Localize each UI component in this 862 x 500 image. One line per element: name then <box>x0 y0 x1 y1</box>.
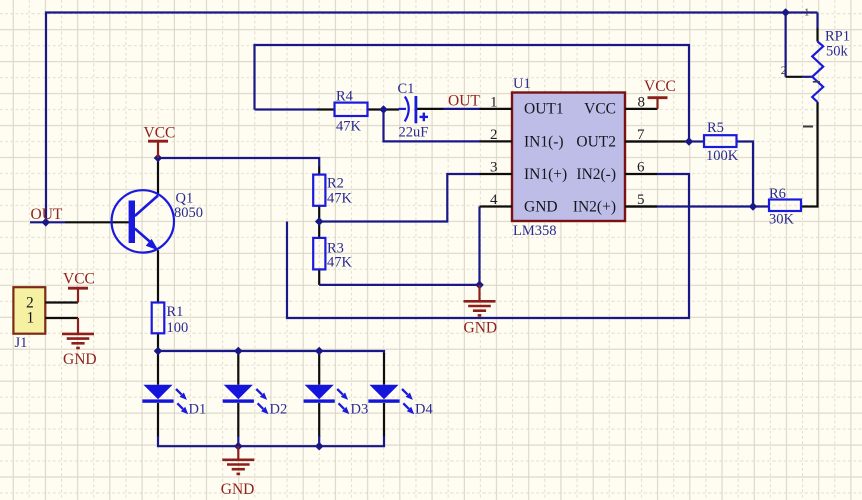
op-amp U1 LM358 <box>512 76 625 239</box>
wire D3 anode <box>318 351 320 385</box>
wire D3 cathode <box>318 403 320 437</box>
svg-text:50k: 50k <box>826 44 849 60</box>
svg-text:OUT1: OUT1 <box>524 100 564 117</box>
wire feedback loop R4 to OUT2 node <box>255 45 690 142</box>
wire D2/D3 cathode stubs to rail <box>238 436 319 446</box>
wire VCC node to R2 top <box>158 158 319 175</box>
svg-text:VCC: VCC <box>584 100 616 117</box>
wire LED cathode rail <box>158 436 384 446</box>
svg-text:100: 100 <box>167 320 189 336</box>
wire D1 cathode <box>157 403 159 437</box>
pin 2 stub <box>480 127 513 143</box>
svg-text:30K: 30K <box>769 211 795 227</box>
ground GND at pin 4 net <box>464 285 498 336</box>
node junction pin7 / R5 / feedback <box>685 137 694 146</box>
resistor R1 100 <box>152 303 189 336</box>
wire R1 bottom to LED rail <box>157 333 159 351</box>
resistor R6 30K <box>769 186 801 227</box>
svg-text:J1: J1 <box>15 335 28 351</box>
pin J1.2 stub <box>45 301 78 303</box>
svg-text:4: 4 <box>490 192 498 208</box>
svg-text:R5: R5 <box>707 120 724 136</box>
wire D4 cathode <box>383 403 385 437</box>
node junction OUT net <box>42 218 51 227</box>
node junction R1 / D1 <box>154 347 163 356</box>
LED D1 <box>142 385 206 418</box>
resistor R5 100K <box>704 120 739 164</box>
wire IN1(+) pin3 from R2R3 node <box>319 174 479 222</box>
resistor R3 47K <box>313 238 352 270</box>
svg-text:OUT2: OUT2 <box>576 133 616 150</box>
wire Q1 emitter down through R1 top <box>157 250 159 302</box>
svg-text:8050: 8050 <box>174 205 203 221</box>
svg-text:5: 5 <box>637 192 645 208</box>
svg-text:VCC: VCC <box>144 124 176 141</box>
LED D2 <box>223 385 288 418</box>
svg-text:VCC: VCC <box>63 271 95 288</box>
potentiometer RP1 50k <box>781 7 850 127</box>
ground GND at LED cathode rail <box>221 446 255 498</box>
wire LED anode rail <box>158 351 384 354</box>
node junction rail / D3 <box>315 347 324 356</box>
resistor R2 47K <box>313 175 352 207</box>
power VCC at pin 8 <box>644 78 676 109</box>
ground GND at J1 <box>62 318 97 368</box>
svg-text:R2: R2 <box>327 176 344 192</box>
svg-text:IN1(+): IN1(+) <box>524 166 567 183</box>
wire R4 junction down to IN1(-) pin 2 <box>384 110 480 142</box>
svg-text:R4: R4 <box>336 89 354 105</box>
svg-text:1: 1 <box>490 94 498 110</box>
svg-text:2: 2 <box>490 127 498 143</box>
svg-text:7: 7 <box>637 127 645 143</box>
wire R6 right to RP1 bottom <box>801 102 818 207</box>
wire R3 bottom to GND node and pin4 <box>319 207 479 285</box>
svg-text:22uF: 22uF <box>399 124 429 140</box>
pin 1 stub <box>480 94 513 110</box>
svg-text:R6: R6 <box>769 186 786 202</box>
power VCC at Q1 collector <box>144 124 176 158</box>
wire top rail from OUT net up and across to RP1 <box>46 13 818 223</box>
svg-text:D4: D4 <box>415 402 433 418</box>
svg-text:2: 2 <box>781 65 787 77</box>
node junction rail / D2 <box>234 347 243 356</box>
resistor R4 47K <box>335 89 368 135</box>
svg-text:100K: 100K <box>706 148 739 164</box>
svg-text:IN1(-): IN1(-) <box>524 133 564 150</box>
svg-text:R1: R1 <box>167 304 184 320</box>
connector J1 <box>13 287 45 351</box>
svg-text:1: 1 <box>804 7 810 19</box>
wire R4 right to C1 <box>368 108 400 110</box>
svg-text:8: 8 <box>638 94 646 110</box>
wire R5 left lead <box>689 140 704 142</box>
wire D4 anode <box>383 353 385 385</box>
svg-text:OUT: OUT <box>31 206 63 223</box>
svg-text:D1: D1 <box>189 402 207 418</box>
wire OUT net to Q1 base <box>30 221 129 223</box>
node junction top rail / RP1 wiper <box>781 8 790 17</box>
svg-text:RP1: RP1 <box>825 29 850 45</box>
wire RP1 top lead <box>816 13 818 42</box>
LED D4 <box>368 385 433 418</box>
svg-text:GND: GND <box>524 199 558 216</box>
wire D2 cathode <box>237 403 239 437</box>
wire D1 anode <box>157 351 159 385</box>
pin 8 stub <box>625 94 658 110</box>
node junction cathode rail / D3 <box>315 442 324 451</box>
wire R3 bottom lead <box>318 269 320 285</box>
wire into R4 left <box>255 108 335 110</box>
svg-text:IN2(+): IN2(+) <box>573 199 616 216</box>
pin 4 stub <box>480 192 513 208</box>
node junction pin4 / GND <box>475 281 484 290</box>
node junction R5 / pin5 / R6 <box>749 202 758 211</box>
wire R2 bottom lead <box>318 206 320 222</box>
svg-text:47K: 47K <box>336 119 362 135</box>
svg-text:47K: 47K <box>327 191 353 207</box>
wire C1 to pin 1 OUT1 <box>417 108 480 110</box>
power VCC at J1 <box>63 271 95 303</box>
pin 7 stub <box>625 127 657 143</box>
svg-text:GND: GND <box>464 319 498 336</box>
node junction cathode rail / D2 / GND <box>234 442 243 451</box>
wire pin7 to R5 <box>625 140 689 142</box>
LED D3 <box>304 385 369 418</box>
svg-text:GND: GND <box>63 351 97 368</box>
svg-text:3: 3 <box>490 160 498 176</box>
wire pin5 to R6 <box>625 205 769 207</box>
pin 6 stub <box>625 160 657 176</box>
pin J1.1 stub <box>45 317 78 319</box>
svg-text:U1: U1 <box>513 76 531 92</box>
capacitor C1 22uF polarized <box>398 81 429 140</box>
wire Q1 collector up to VCC node <box>157 158 159 195</box>
svg-text:OUT: OUT <box>448 92 480 109</box>
wire D2 anode <box>237 351 239 385</box>
svg-text:VCC: VCC <box>644 78 676 95</box>
pin 5 stub <box>625 192 657 208</box>
svg-text:C1: C1 <box>398 81 415 97</box>
node junction R2 / R3 divider <box>315 217 324 226</box>
wire R3 top lead <box>318 222 320 238</box>
svg-text:6: 6 <box>637 160 645 176</box>
node junction VCC / Q1 collector <box>154 154 163 163</box>
svg-text:LM358: LM358 <box>513 223 557 239</box>
wire R5 right down to pin5 net <box>737 142 754 207</box>
svg-text:D3: D3 <box>351 402 369 418</box>
svg-text:1: 1 <box>27 309 35 326</box>
svg-text:GND: GND <box>221 481 255 498</box>
transistor Q1 8050 <box>112 190 203 252</box>
svg-text:47K: 47K <box>327 254 353 270</box>
node junction R4 / C1 / pin2 <box>379 105 388 114</box>
pin 3 stub <box>480 160 513 176</box>
svg-text:D2: D2 <box>270 402 288 418</box>
svg-text:IN2(-): IN2(-) <box>576 166 616 183</box>
wire RP1 wiper drop from top rail <box>784 13 786 77</box>
wire R2R3 node to IN2(-) via bottom run <box>287 174 689 318</box>
wire wiper horizontal to RP1 tap <box>786 76 814 78</box>
